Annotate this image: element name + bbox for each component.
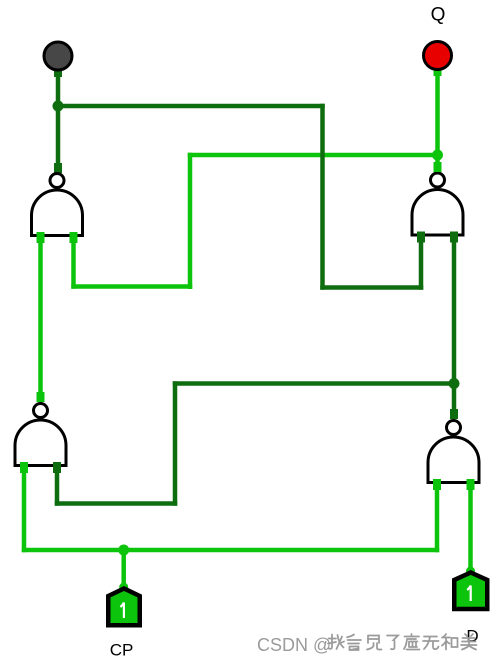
- svg-text:CP: CP: [110, 641, 134, 660]
- wire: horizontal y=503.5 to U3 right input (low): [55, 501, 178, 506]
- nand gate U2 (top right): [412, 173, 463, 235]
- svg-text:CSDN @: CSDN @: [257, 635, 331, 655]
- nand gate U1 (top left): [32, 174, 83, 236]
- U4 input pins (high): [433, 479, 441, 490]
- wire: junction down to input CP (high): [121, 550, 126, 587]
- U2 output pin stub (high): [434, 162, 442, 172]
- wire: vertical up to U1 right input (high): [71, 240, 76, 289]
- wire: U4 right input down to input D (high): [468, 487, 473, 571]
- 美: [461, 634, 477, 650]
- 我: [328, 635, 344, 650]
- 虚: [404, 634, 420, 650]
- wire: vertical x=322 (low): [320, 104, 325, 290]
- U3 right input pin (low): [53, 462, 61, 473]
- wire: vertical x=190 (high): [188, 153, 193, 289]
- connection dot at CP pin: [119, 583, 128, 592]
- wire: vertical up to U3 right input (low): [55, 471, 60, 506]
- wire: node Q̄ horizontal to x=322 (low): [56, 104, 325, 109]
- wire: Q̄ LED to gate U1 output (vertical, low): [56, 66, 61, 174]
- input pin D (pentagon, value 1): [454, 573, 487, 610]
- wire: U3 output up to U1 left input (vertical, high): [38, 240, 43, 402]
- nand gate U3 (bottom left): [15, 404, 66, 466]
- 了: [387, 636, 398, 650]
- wire: horizontal y=383.5 feedback (low): [173, 381, 457, 386]
- connection dot at D pin: [466, 567, 475, 576]
- 看: [347, 635, 361, 651]
- nand gate U4 (bottom right): [428, 421, 479, 483]
- U3 left input pin (high): [20, 462, 28, 473]
- junction node Q: [432, 150, 443, 161]
- output LED Q̄ (off, dark): [44, 42, 72, 70]
- junction node Q̄: [53, 101, 64, 112]
- output LED Q (on, red): [424, 42, 452, 70]
- wire: horizontal y=287.5 to U2 input (low): [320, 285, 423, 290]
- wire: U3 left input down to CP net (high): [22, 471, 27, 552]
- U1 input pins (high): [37, 232, 45, 243]
- svg-text:Q: Q: [431, 5, 446, 26]
- input pin CP (pentagon, value 1): [108, 589, 140, 626]
- wire: vertical x=175 (low): [173, 381, 178, 506]
- wire: U4 output up to U2 right input (vertical, low): [452, 240, 457, 419]
- wire: vertical up to U2 left input (low): [419, 240, 424, 290]
- U1 output pin stub (low): [54, 163, 62, 173]
- junction node CP: [118, 545, 129, 556]
- value 1 of CP: [120, 603, 124, 618]
- U2 input pins (low): [417, 232, 425, 243]
- 见: [367, 636, 382, 650]
- junction node Q̄2 feedback: [449, 378, 460, 389]
- U4 output pin stub (low): [450, 409, 458, 419]
- watermark chinese glyphs (vector): [328, 634, 477, 650]
- wire: U4 left input down to CP net (high): [435, 487, 440, 552]
- 和: [442, 634, 458, 650]
- wire: horizontal y=155 Q feedback (high): [188, 153, 440, 158]
- wire: CP net horizontal y=550 (high): [22, 548, 440, 553]
- pin stub under LED Q̄: [54, 66, 62, 77]
- 无: [423, 637, 439, 650]
- wire: LED Q down to U2 output (vertical, high): [435, 65, 440, 173]
- U3 output pin stub (high): [37, 392, 45, 402]
- value 1 of D: [467, 586, 471, 601]
- wire: horizontal y=286.5 to U1 right input (high): [71, 284, 192, 289]
- pin stub under LED Q: [434, 65, 442, 76]
- watermark CSDN: [257, 635, 331, 655]
